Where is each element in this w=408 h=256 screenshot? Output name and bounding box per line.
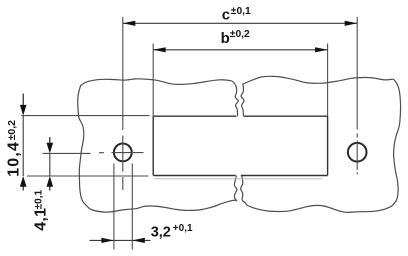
break squiggle top left [235, 87, 238, 116]
dimension 4,1 label [33, 190, 50, 231]
panel left edge [78, 86, 86, 205]
dimension 3,2 arrow left [101, 238, 114, 243]
hole left [114, 144, 132, 162]
break squiggle bottom left [234, 176, 237, 201]
extension line 10,4 top [21, 115, 149, 117]
break squiggle top right [241, 84, 244, 116]
panel top edge left part [81, 79, 237, 87]
hole right [348, 143, 367, 162]
dimension 4,1 line [49, 153, 51, 176]
svg-text:+0,1: +0,1 [173, 223, 193, 234]
extension line 3,2 right [131, 164, 133, 250]
dimension 3,2 line [90, 239, 151, 241]
extension line 3,2 left [113, 164, 115, 250]
centerline vertical right hole / extension c right [356, 17, 358, 175]
svg-text:±0,2: ±0,2 [230, 29, 250, 40]
centerline vertical left hole / extension c left [122, 17, 124, 190]
ghost line under rectangle [154, 178, 322, 180]
dimension 10,4 label [5, 120, 22, 177]
svg-text:3,2: 3,2 [151, 224, 171, 240]
dimension 3,2 arrow right [132, 238, 145, 243]
dimension 10,4 arrow top [20, 94, 27, 116]
panel bottom edge left part [86, 200, 237, 212]
cutout rectangle [153, 116, 327, 175]
svg-text:±0,1: ±0,1 [231, 6, 251, 17]
dimension c line [123, 22, 357, 24]
svg-text:b: b [221, 30, 230, 47]
dimension 10,4 arrow bottom [20, 176, 27, 191]
centerline horizontal left hole / extension 4,1 [43, 152, 144, 155]
dimension 4,1 arrow top [47, 137, 54, 153]
svg-text:c: c [222, 7, 230, 24]
dimension 4,1 arrow bottom [47, 176, 54, 191]
panel right edge [394, 80, 401, 204]
dimension c arrow right [345, 21, 358, 26]
dimension b arrow left [153, 47, 166, 52]
dimension b arrow right [315, 47, 328, 52]
panel top edge right part [243, 76, 395, 84]
dimension c arrow left [123, 21, 136, 26]
extension line bottom reference [27, 175, 149, 177]
break squiggle bottom right [241, 176, 246, 203]
dimension b line [153, 49, 327, 51]
extension line b left [152, 44, 154, 117]
extension line b right [327, 44, 329, 117]
dimension 10,4 line [22, 116, 24, 176]
panel bottom edge right part [245, 203, 394, 213]
